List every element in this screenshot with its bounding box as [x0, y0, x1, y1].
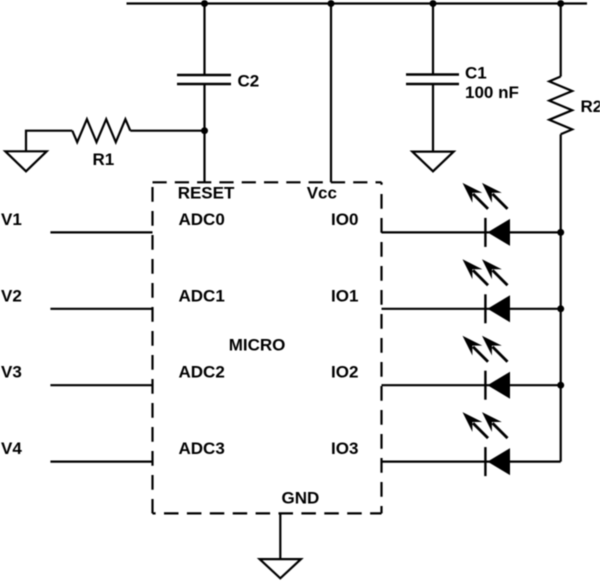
svg-text:ADC0: ADC0	[179, 210, 225, 229]
svg-text:IO3: IO3	[331, 439, 358, 458]
node rail-IO0	[557, 229, 564, 236]
LED D4 on IO3	[463, 412, 511, 476]
wire IO2 pin to LED3	[382, 384, 561, 386]
LED D1 on IO0	[463, 183, 511, 247]
ground at GND	[260, 559, 301, 578]
svg-text:R2: R2	[581, 97, 600, 116]
svg-text:ADC2: ADC2	[179, 363, 225, 382]
svg-text:IO2: IO2	[331, 363, 358, 382]
wire V1 to ADC0 pin	[50, 231, 152, 233]
svg-text:MICRO: MICRO	[229, 335, 286, 354]
ground at R1	[5, 151, 46, 171]
node rail-R2	[557, 0, 564, 7]
wire Vcc pin stub	[330, 4, 332, 183]
svg-text:R1: R1	[93, 150, 115, 169]
wire IO1 pin to LED2	[382, 308, 561, 310]
node rail-IO1	[557, 305, 564, 312]
wire V3 to ADC2 pin	[50, 384, 152, 386]
svg-text:GND: GND	[282, 489, 320, 508]
wire R1 left lead	[26, 131, 72, 152]
wire R1 right lead to node	[130, 130, 204, 132]
svg-text:IO1: IO1	[331, 286, 358, 305]
svg-text:ADC1: ADC1	[179, 286, 225, 305]
svg-text:V3: V3	[1, 363, 22, 382]
wire Vcc top rail	[127, 2, 588, 4]
svg-text:C2: C2	[238, 72, 260, 91]
node rail-C1	[430, 0, 437, 7]
svg-text:100 nF: 100 nF	[465, 83, 519, 102]
wire V2 to ADC1 pin	[50, 308, 152, 310]
wire IO3 pin to LED4	[382, 461, 561, 463]
capacitor C1	[406, 75, 459, 85]
svg-text:Vcc: Vcc	[307, 184, 337, 203]
resistor R2	[549, 77, 572, 135]
svg-text:V1: V1	[1, 210, 22, 229]
wire rail to C1 top plate	[432, 4, 434, 75]
node rail-Vcc pin	[328, 0, 335, 7]
wire C2 bottom to RESET pin	[203, 84, 205, 182]
wire rail to R2 top	[560, 4, 562, 77]
wire V4 to ADC3 pin	[50, 461, 152, 463]
LED D2 on IO1	[463, 259, 511, 323]
svg-text:C1: C1	[465, 63, 487, 82]
svg-text:IO0: IO0	[331, 210, 358, 229]
resistor R1	[72, 119, 130, 142]
svg-text:ADC3: ADC3	[179, 439, 225, 458]
node rail-IO2	[557, 382, 564, 389]
LED D3 on IO2	[463, 336, 511, 400]
micro U1 dashed box	[153, 182, 382, 513]
svg-text:V2: V2	[1, 286, 22, 305]
node rail-C2	[201, 0, 208, 7]
svg-text:V4: V4	[1, 439, 22, 458]
wire R2 bottom rail down right side	[560, 134, 562, 461]
capacitor C2	[177, 75, 231, 84]
wire C1 bottom lead	[432, 84, 434, 152]
wire GND pin stub	[279, 513, 281, 559]
node C2-R1-RESET	[201, 127, 208, 134]
ground at C1	[412, 152, 453, 172]
wire rail to C2 top plate	[203, 4, 205, 76]
wire IO0 pin to LED1	[382, 231, 561, 233]
svg-text:RESET: RESET	[178, 184, 235, 203]
